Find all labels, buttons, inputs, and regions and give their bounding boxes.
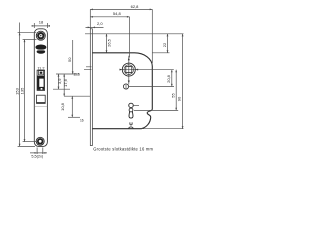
label 16 small <box>80 118 84 122</box>
svg-text:11,5: 11,5 <box>73 72 80 76</box>
label 62,8 <box>131 4 140 9</box>
svg-text:135: 135 <box>20 87 25 94</box>
dimension 20,8 line <box>171 70 173 87</box>
side view faceplate edge-on <box>90 29 92 146</box>
dimension 20,8 arrows <box>171 70 173 87</box>
label 5,5(2x) <box>31 155 44 159</box>
middle dim A vertical <box>58 74 60 89</box>
ext side hole slash <box>125 84 127 90</box>
svg-text:10,8: 10,8 <box>60 102 65 111</box>
label 55 rotated <box>170 93 175 98</box>
label 50 rotated <box>67 57 72 62</box>
latch opening outline <box>37 70 45 90</box>
svg-text:Grootste slotkastdikte 16 mm: Grootste slotkastdikte 16 mm <box>93 147 153 152</box>
svg-text:22: 22 <box>162 42 167 47</box>
dimension 5,5(2x) arrows <box>35 152 46 154</box>
label 26,5 rotated <box>107 38 112 47</box>
lock case outline <box>92 53 152 129</box>
label 90 rotated <box>177 96 182 101</box>
bottom screw hole <box>36 137 44 145</box>
bottom extension line right <box>141 128 183 130</box>
case top ext right <box>152 52 169 54</box>
svg-text:11,2: 11,2 <box>37 66 44 70</box>
ext cylinder line <box>134 109 178 111</box>
label 10,8 rotated <box>60 102 65 111</box>
top screw hole <box>36 31 45 40</box>
svg-text:16: 16 <box>80 118 84 122</box>
label 153 rotated <box>15 87 20 94</box>
side plate extension up <box>90 9 152 63</box>
label 22 rotated <box>162 42 167 47</box>
dimension 22 arrows <box>167 34 169 53</box>
label 11,2 <box>37 66 44 70</box>
faceplate front view outline <box>34 29 47 147</box>
svg-text:3,9: 3,9 <box>57 78 62 84</box>
svg-text:20,8: 20,8 <box>166 74 171 83</box>
svg-text:50: 50 <box>67 57 72 62</box>
dark oval hole lower <box>37 50 46 54</box>
dimension 2,0 arrows <box>88 27 95 29</box>
deadbolt opening <box>37 95 46 103</box>
caption <box>93 147 153 152</box>
dimension 62,8 arrows <box>90 9 152 11</box>
dimension 54,8 arrows <box>90 16 129 18</box>
middle ext keyhole bottom <box>68 116 80 118</box>
dark oval hole upper <box>35 45 46 50</box>
dimension 22 line <box>167 34 169 53</box>
dimension 26,5 line <box>106 34 108 53</box>
left inner dim arrows <box>24 40 26 142</box>
ext side hole <box>123 84 128 89</box>
latch bolt dark fill <box>38 76 45 90</box>
svg-text:18: 18 <box>39 20 44 25</box>
middle ext deadbolt top <box>64 95 90 97</box>
faint line under deadbolt <box>35 105 48 107</box>
middle dim 50 arrow <box>72 71 74 74</box>
label 3,9 rotated <box>57 78 62 84</box>
follower outer circle <box>122 63 135 76</box>
ext side hole line <box>129 86 174 88</box>
label 135 rotated <box>20 87 25 94</box>
label 11,5 <box>73 72 80 76</box>
dimension 26,5 arrows <box>106 34 108 53</box>
dimension 18 line <box>32 23 50 28</box>
svg-text:54,8: 54,8 <box>113 11 122 16</box>
dimension 90 line <box>182 34 184 129</box>
bottom edge bump <box>129 127 134 129</box>
middle dim B arrows <box>63 74 65 96</box>
keyhole tick <box>134 104 139 106</box>
keyhole small detail <box>130 122 132 125</box>
label 17,6 rotated <box>63 78 68 87</box>
svg-text:17,6: 17,6 <box>63 78 68 87</box>
svg-text:2,0: 2,0 <box>97 21 103 26</box>
left inner dimension line 135 <box>24 40 26 142</box>
follower vertical centerline <box>128 17 131 85</box>
dimension 55 arrows <box>175 70 177 111</box>
left outer chain extension top <box>18 32 37 34</box>
left outer dimension line 153 <box>19 23 21 147</box>
middle ext line A <box>56 73 79 75</box>
follower horizontal centerline <box>120 69 139 71</box>
label 2,0 <box>97 21 103 26</box>
dimension 55 line <box>175 70 177 111</box>
left inner chain extension top <box>23 39 37 41</box>
left inner chain extension bottom <box>23 141 36 143</box>
follower square hole <box>126 67 132 73</box>
top reference line <box>85 33 184 35</box>
dimension 2,0 leader <box>86 26 104 28</box>
label 20,8 rotated <box>166 74 171 83</box>
dimension 18 arrows <box>32 25 50 27</box>
left outer dim arrows <box>19 33 21 147</box>
middle dim C arrows <box>71 96 73 117</box>
svg-text:62,8: 62,8 <box>131 4 140 9</box>
keyhole <box>129 103 134 108</box>
latch bolt white notch <box>39 79 43 90</box>
follower arrows <box>128 57 130 83</box>
dimension 62,8 line <box>90 8 152 10</box>
svg-text:26,5: 26,5 <box>107 38 112 47</box>
middle dim C vertical <box>71 96 73 117</box>
label 54,8 <box>113 11 122 16</box>
deadbolt bottom thick edge <box>37 102 46 103</box>
dimension 54,8 line <box>90 16 129 18</box>
middle dim B vertical <box>63 74 65 96</box>
follower inner circle <box>124 65 134 75</box>
middle column follower centerline <box>84 67 92 70</box>
svg-text:90: 90 <box>177 96 182 101</box>
dimension 18 label <box>39 20 44 25</box>
ext follower right <box>136 69 174 71</box>
dimension 5,5(2x) line <box>30 148 47 155</box>
middle dim A arrows <box>58 74 60 89</box>
middle dim 50 vertical <box>72 40 74 74</box>
dimension 90 arrows <box>182 34 184 129</box>
middle ext latch bottom <box>53 88 70 90</box>
svg-text:55: 55 <box>170 93 175 98</box>
svg-text:5,5(2x): 5,5(2x) <box>31 155 44 159</box>
latch top dark dot <box>40 72 43 74</box>
left outer chain extension bottom <box>18 145 35 147</box>
latch small top rect <box>39 71 44 75</box>
